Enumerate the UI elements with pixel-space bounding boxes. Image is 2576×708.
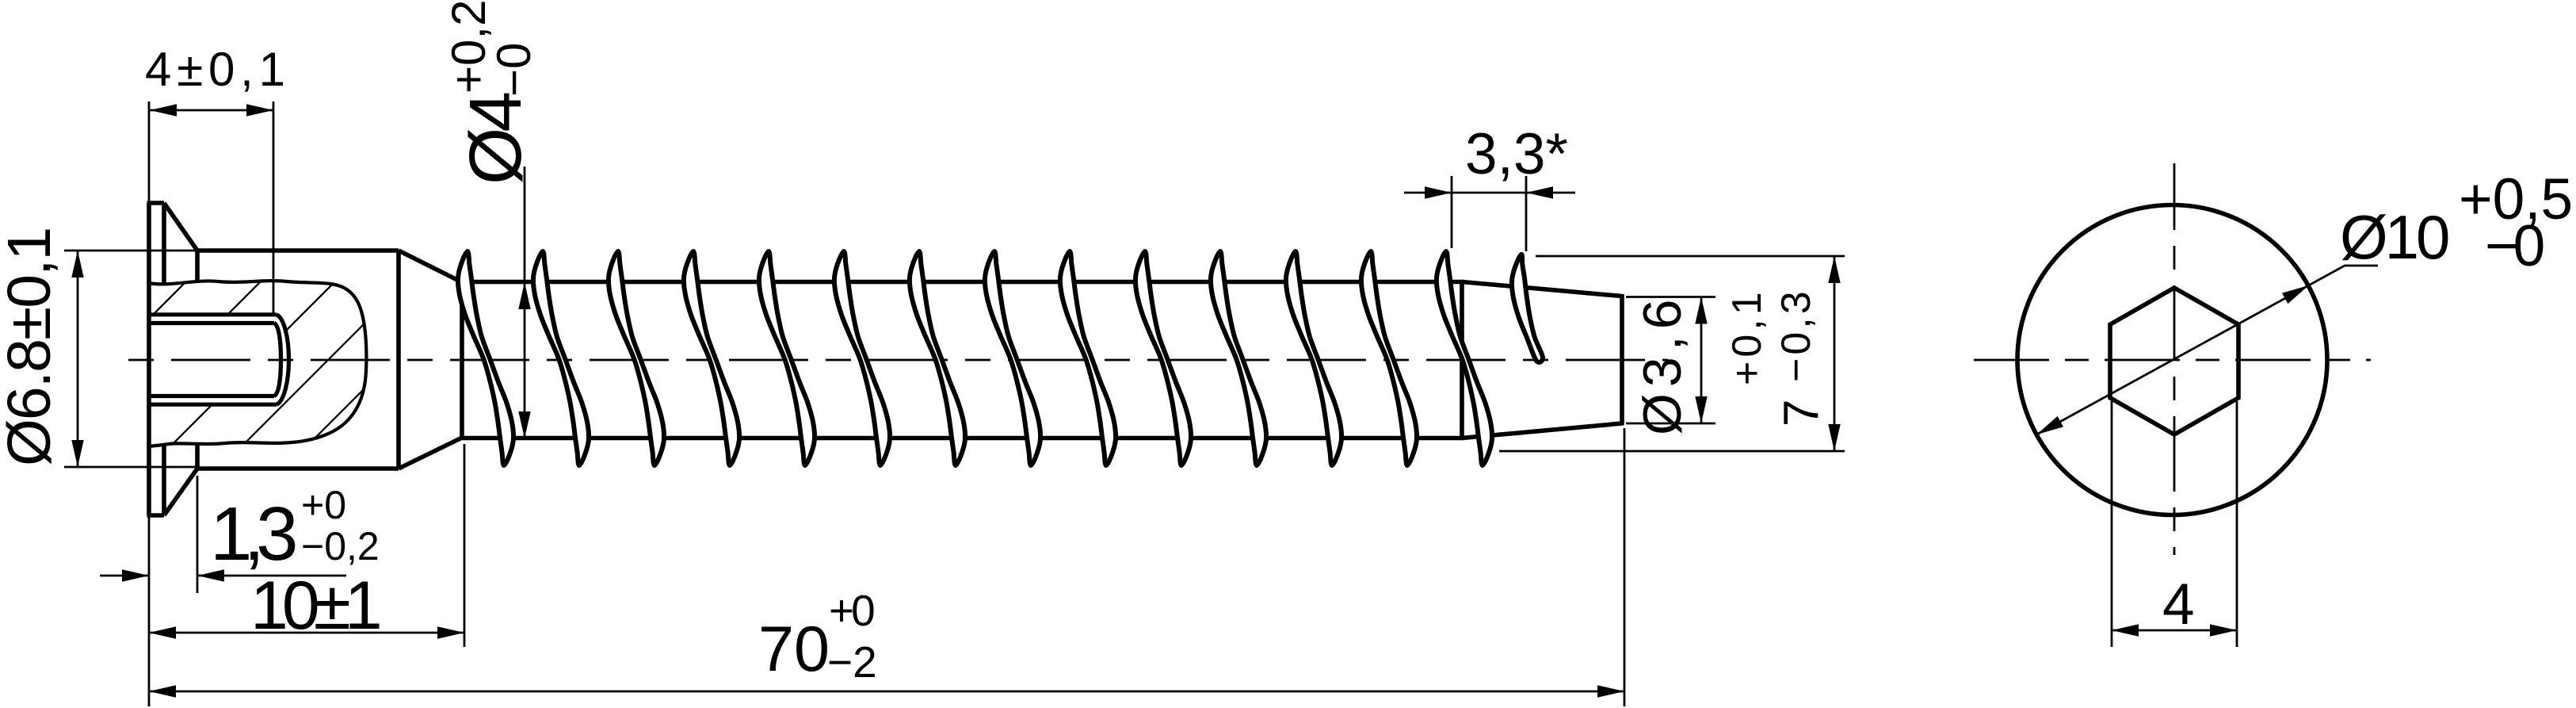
svg-text:−0,3: −0,3 [1773, 288, 1819, 382]
svg-text:7: 7 [1774, 400, 1829, 427]
svg-text:3,3*: 3,3* [1465, 122, 1568, 186]
svg-text:Ø10: Ø10 [2340, 202, 2448, 272]
svg-text:4±0,1: 4±0,1 [145, 43, 285, 96]
svg-text:70: 70 [758, 614, 830, 685]
svg-text:10±1: 10±1 [250, 568, 380, 644]
svg-text:+0,1: +0,1 [1724, 288, 1770, 385]
svg-text:4: 4 [2162, 572, 2195, 637]
svg-text:1,3: 1,3 [210, 492, 296, 576]
svg-text:Ø3,6: Ø3,6 [1632, 293, 1693, 435]
svg-text:−0: −0 [2485, 214, 2544, 278]
svg-text:+0: +0 [301, 483, 346, 527]
svg-text:+0: +0 [829, 586, 874, 635]
svg-text:Ø4: Ø4 [454, 94, 536, 185]
svg-text:−2: −2 [827, 637, 877, 687]
svg-text:−0: −0 [487, 43, 540, 97]
svg-text:−0,2: −0,2 [301, 524, 380, 568]
svg-text:Ø6.8±0,1: Ø6.8±0,1 [0, 228, 63, 466]
